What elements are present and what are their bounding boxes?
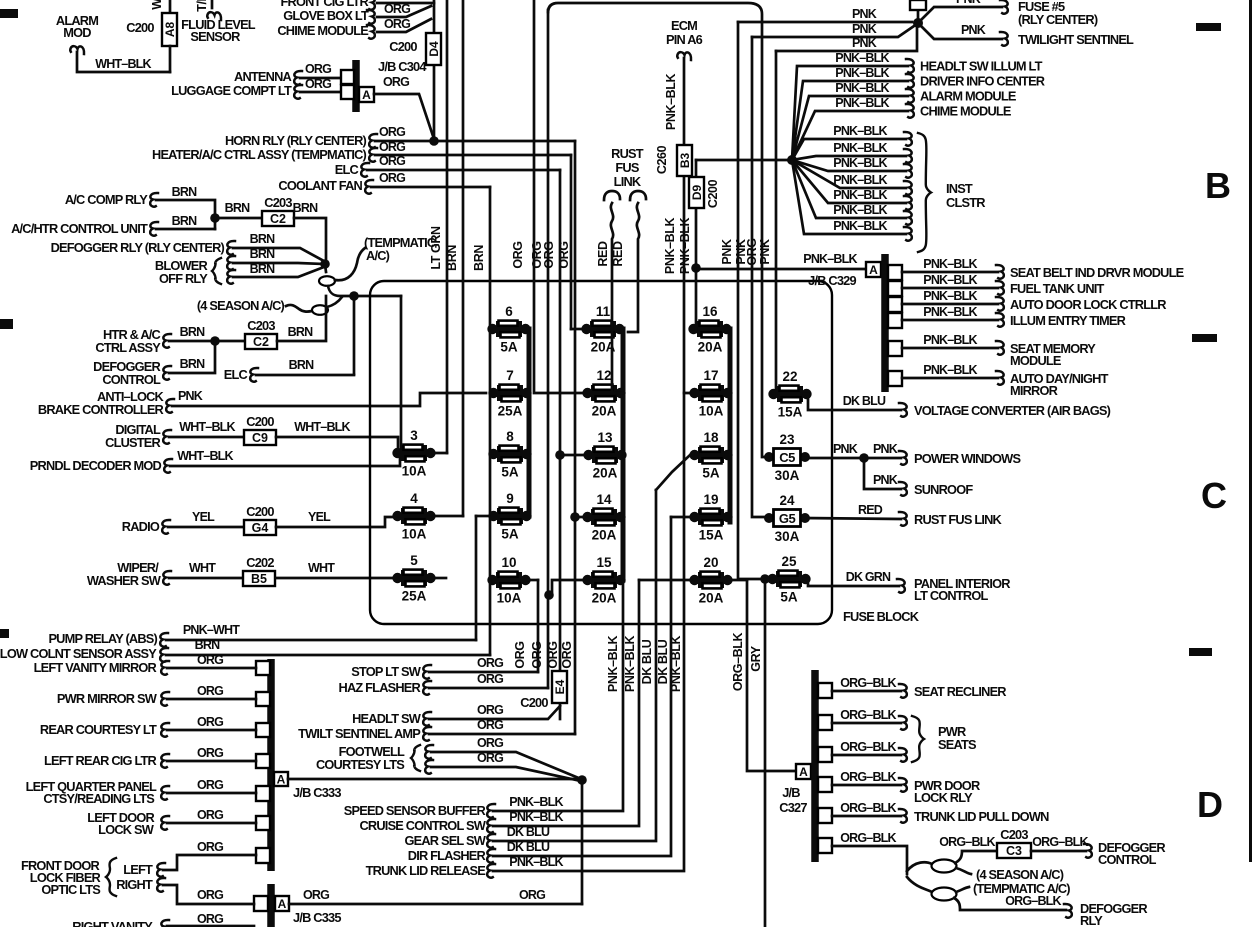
svg-text:16: 16 bbox=[702, 304, 718, 319]
junction gry-jct bbox=[760, 574, 770, 584]
svg-text:ORG: ORG bbox=[197, 888, 223, 902]
svg-text:5A: 5A bbox=[500, 340, 518, 355]
terminal hook fuse5-rly bbox=[1000, 0, 1008, 14]
wire bus-col3-right bbox=[621, 329, 626, 580]
terminal hook elc2 bbox=[250, 368, 258, 382]
wire v-org-twilt bbox=[574, 141, 577, 734]
terminal hook c333-2 bbox=[161, 692, 169, 706]
wire panel-int bbox=[804, 579, 899, 586]
svg-text:7: 7 bbox=[506, 368, 514, 383]
svg-text:D4: D4 bbox=[427, 41, 441, 57]
connector pin c329-2 bbox=[888, 281, 902, 296]
wire v-brn-a bbox=[462, 0, 465, 516]
svg-text:TRUNK LID RELEASE: TRUNK LID RELEASE bbox=[366, 863, 487, 878]
svg-text:PNK–BLK: PNK–BLK bbox=[509, 795, 563, 809]
connector pin c327-5 bbox=[818, 808, 832, 823]
wire jbc329-feed bbox=[696, 268, 866, 271]
wire c329-3 bbox=[902, 303, 998, 306]
svg-text:PNK–BLK: PNK–BLK bbox=[833, 156, 887, 170]
wire defog-ctl-wire bbox=[1031, 850, 1086, 853]
svg-text:14: 14 bbox=[596, 492, 612, 507]
svg-text:C5: C5 bbox=[779, 450, 795, 465]
registration mark right-c bbox=[1189, 648, 1212, 656]
svg-text:C: C bbox=[1201, 475, 1227, 516]
wire radio-yel-r bbox=[276, 517, 394, 527]
junction d9-jct bbox=[691, 263, 701, 273]
terminal hook c333-3 bbox=[161, 723, 169, 737]
svg-text:20A: 20A bbox=[593, 466, 618, 481]
terminal hook alarm-module bbox=[906, 89, 914, 103]
wire bubble-drop bbox=[400, 296, 403, 449]
wire c329-2 bbox=[902, 287, 998, 290]
svg-text:HAZ FLASHER: HAZ FLASHER bbox=[339, 680, 421, 695]
svg-text:HEADLT SW: HEADLT SW bbox=[352, 711, 422, 726]
svg-text:C200: C200 bbox=[389, 39, 417, 54]
svg-text:A: A bbox=[869, 263, 878, 277]
wire inst-clstr-6 bbox=[792, 160, 906, 218]
svg-text:PNK–BLK: PNK–BLK bbox=[835, 51, 889, 65]
svg-text:C200: C200 bbox=[246, 414, 274, 429]
svg-text:PNK–BLK: PNK–BLK bbox=[833, 188, 887, 202]
connector pin c327-4 bbox=[818, 777, 832, 792]
svg-text:BRN: BRN bbox=[250, 262, 275, 276]
svg-text:ORG: ORG bbox=[519, 888, 545, 902]
terminal hook panel-int bbox=[897, 579, 905, 593]
svg-text:SEAT RECLINER: SEAT RECLINER bbox=[914, 684, 1006, 699]
wire c333-2 bbox=[167, 698, 256, 701]
connector pin c333-6 bbox=[256, 816, 270, 830]
wire c327-3 bbox=[832, 754, 901, 757]
svg-text:A: A bbox=[277, 773, 286, 787]
brace inst-clstr bbox=[918, 133, 931, 252]
svg-text:PNK–BLK: PNK–BLK bbox=[923, 257, 977, 271]
svg-text:ORG: ORG bbox=[197, 912, 223, 926]
wire htrac-brn bbox=[169, 340, 245, 343]
wire f17-feed bbox=[684, 176, 690, 393]
terminal hook radio bbox=[162, 520, 170, 534]
connector c335-A bbox=[275, 896, 289, 911]
terminal hook wiper bbox=[163, 571, 171, 585]
svg-text:BRN: BRN bbox=[250, 247, 275, 261]
terminal hook low-colnt bbox=[160, 648, 168, 662]
wire v-pnk-top-c bbox=[776, 25, 917, 51]
svg-text:CTRL ASSY: CTRL ASSY bbox=[95, 340, 161, 355]
svg-text:YEL: YEL bbox=[308, 510, 331, 524]
connector pin c329-6 bbox=[888, 371, 902, 386]
svg-text:C2: C2 bbox=[270, 212, 286, 226]
svg-text:C200: C200 bbox=[246, 504, 274, 519]
svg-text:5A: 5A bbox=[501, 465, 519, 480]
wire sunroof bbox=[864, 458, 901, 489]
svg-text:5A: 5A bbox=[501, 527, 519, 542]
fuse F16 20A bbox=[688, 304, 731, 355]
wire elc2-riser bbox=[353, 296, 356, 374]
svg-text:RUST FUS LINK: RUST FUS LINK bbox=[914, 512, 1003, 527]
svg-text:COURTESY LTS: COURTESY LTS bbox=[316, 757, 405, 772]
svg-text:POWER WINDOWS: POWER WINDOWS bbox=[914, 451, 1021, 466]
svg-text:A/C/HTR CONTROL UNIT: A/C/HTR CONTROL UNIT bbox=[11, 221, 148, 236]
wire c329-1 bbox=[902, 271, 998, 274]
connector pin c304-1 bbox=[341, 70, 354, 84]
wire pnk-node-stub bbox=[917, 0, 920, 23]
terminal hook c333-4 bbox=[161, 754, 169, 768]
svg-text:PNK–BLK: PNK–BLK bbox=[663, 218, 677, 275]
svg-text:5A: 5A bbox=[780, 590, 798, 605]
svg-text:PNK–BLK: PNK–BLK bbox=[923, 363, 977, 377]
wire footwell-org1 bbox=[431, 752, 581, 779]
terminal hook cruise bbox=[487, 819, 495, 833]
svg-text:PNK–BLK: PNK–BLK bbox=[669, 636, 683, 693]
terminal hook fdl-left bbox=[157, 863, 165, 877]
connector C2 C203 a bbox=[262, 211, 294, 226]
wire defog-c3-riser bbox=[955, 851, 996, 863]
svg-text:WHT: WHT bbox=[189, 561, 216, 575]
svg-text:C200: C200 bbox=[520, 695, 548, 710]
svg-text:ORG–BLK: ORG–BLK bbox=[840, 676, 896, 690]
svg-text:BRAKE CONTROLLER: BRAKE CONTROLLER bbox=[38, 402, 164, 417]
fuse F23 C5 30A bbox=[764, 432, 810, 483]
terminal hook c329-6 bbox=[996, 371, 1004, 385]
wire v-orgblk-c327 bbox=[747, 580, 796, 771]
svg-text:(RLY CENTER): (RLY CENTER) bbox=[1018, 12, 1098, 27]
terminal hook c329-4 bbox=[996, 313, 1004, 327]
inline connector oval tempmatic-b bbox=[932, 888, 957, 901]
terminal hook c333-1 bbox=[161, 661, 169, 675]
svg-text:E4: E4 bbox=[553, 679, 567, 694]
wire f11-left bbox=[571, 328, 583, 331]
wire f10-drop bbox=[489, 580, 492, 655]
wire rust-brace-l bbox=[604, 191, 620, 200]
svg-text:BRN: BRN bbox=[180, 357, 205, 371]
wire haz-org bbox=[429, 687, 548, 690]
terminal hook twilt bbox=[423, 727, 431, 741]
connector B3 C260 bbox=[677, 145, 692, 176]
fuse F18 5A bbox=[689, 430, 732, 481]
wire fdl-right-org bbox=[163, 885, 254, 904]
terminal hook inst-clstr-6 bbox=[904, 211, 912, 225]
junction-block bar J/B C304 bbox=[352, 60, 360, 112]
svg-text:10A: 10A bbox=[497, 591, 522, 606]
wire antilock-pnk bbox=[172, 393, 486, 406]
wire v-footwell bbox=[581, 780, 584, 904]
svg-text:PNK: PNK bbox=[178, 389, 203, 403]
wire v-org-e4-bot bbox=[559, 703, 562, 719]
wire ldl-org bbox=[167, 822, 256, 825]
terminal hook luggage bbox=[294, 85, 302, 99]
terminal hook footwell-b bbox=[425, 760, 433, 774]
svg-text:ANTENNA: ANTENNA bbox=[234, 69, 292, 84]
inline connector oval 4season-b bbox=[932, 860, 957, 873]
wire c329-5 bbox=[902, 347, 998, 350]
terminal hook antenna bbox=[294, 71, 302, 85]
junction footwell-node bbox=[577, 775, 587, 785]
terminal hook power-windows bbox=[899, 451, 907, 465]
brace blower bbox=[212, 258, 221, 284]
terminal hook dir-flasher bbox=[487, 849, 495, 863]
svg-text:ORG: ORG bbox=[303, 888, 329, 902]
svg-text:C200: C200 bbox=[706, 179, 720, 208]
svg-text:18: 18 bbox=[703, 430, 719, 445]
wire headlt-illum bbox=[792, 66, 908, 160]
svg-text:5: 5 bbox=[410, 553, 418, 568]
connector pin c327-6 bbox=[818, 838, 832, 853]
wire d4-line bbox=[433, 0, 436, 141]
svg-text:CRUISE CONTROL SW: CRUISE CONTROL SW bbox=[359, 818, 486, 833]
connector pin c333-5 bbox=[256, 786, 270, 801]
terminal hook taillt bbox=[207, 12, 221, 20]
svg-text:ORG–BLK: ORG–BLK bbox=[840, 708, 896, 722]
svg-text:LOCK SW: LOCK SW bbox=[98, 822, 155, 837]
registration mark left-b bbox=[0, 319, 13, 329]
wire inst-clstr-2 bbox=[792, 156, 906, 160]
wire v-pnk-top-a bbox=[738, 21, 912, 24]
wire c335a-org bbox=[289, 903, 582, 906]
svg-text:PNK: PNK bbox=[873, 442, 898, 456]
svg-text:YEL: YEL bbox=[192, 510, 215, 524]
terminal hook prndl bbox=[164, 459, 172, 473]
svg-text:PNK–BLK: PNK–BLK bbox=[833, 173, 887, 187]
svg-text:ORG: ORG bbox=[383, 75, 409, 89]
svg-text:ORG: ORG bbox=[530, 641, 544, 668]
connector pin c304-2 bbox=[341, 85, 354, 99]
wire blower-brn2 bbox=[233, 267, 324, 277]
connector C9 C200 bbox=[244, 430, 276, 445]
svg-text:19: 19 bbox=[703, 492, 718, 507]
svg-text:PNK–BLK: PNK–BLK bbox=[923, 289, 977, 303]
svg-text:(4 SEASON A/C): (4 SEASON A/C) bbox=[976, 867, 1064, 882]
svg-text:BRN: BRN bbox=[288, 325, 313, 339]
junction bubble-node1 bbox=[320, 259, 330, 269]
svg-text:WHT–BLK: WHT–BLK bbox=[294, 420, 350, 434]
wire rust-link-r bbox=[803, 518, 901, 519]
wire horn-org bbox=[375, 140, 575, 143]
wire v-pnkwht-pump bbox=[475, 516, 478, 640]
connector c333-A bbox=[274, 772, 288, 787]
terminal hook right-vanity bbox=[161, 920, 169, 927]
svg-text:ORG: ORG bbox=[546, 641, 560, 668]
wire rust-brace-r bbox=[630, 191, 646, 200]
svg-text:30A: 30A bbox=[775, 468, 800, 483]
svg-text:25A: 25A bbox=[498, 404, 523, 419]
svg-text:22: 22 bbox=[782, 369, 797, 384]
terminal hook c327-4 bbox=[899, 778, 907, 792]
svg-text:4: 4 bbox=[410, 491, 418, 506]
svg-text:WHT: WHT bbox=[308, 561, 335, 575]
junction-block bar J/B C335 bbox=[267, 884, 275, 927]
svg-text:ELC: ELC bbox=[224, 367, 248, 382]
svg-text:PIN A6: PIN A6 bbox=[666, 32, 703, 47]
registration mark right-b bbox=[1192, 334, 1217, 342]
wire f10-right bbox=[528, 579, 538, 582]
connector pin c329-3 bbox=[888, 297, 902, 312]
fuse F17 10A bbox=[689, 368, 732, 419]
svg-text:ORG: ORG bbox=[197, 808, 223, 822]
svg-text:PNK: PNK bbox=[873, 473, 898, 487]
wire f19-left bbox=[671, 516, 691, 519]
junction pw-node bbox=[859, 453, 869, 463]
svg-text:PNK–BLK: PNK–BLK bbox=[606, 636, 620, 693]
terminal hook blower-b bbox=[227, 270, 235, 284]
svg-text:PNK–BLK: PNK–BLK bbox=[923, 333, 977, 347]
svg-text:ORG: ORG bbox=[305, 62, 331, 76]
brace pwr-seats bbox=[912, 716, 924, 762]
terminal hook rust-link-r bbox=[899, 512, 907, 526]
svg-text:ORG: ORG bbox=[513, 641, 527, 668]
fuse F12 20A bbox=[582, 368, 625, 419]
svg-text:DRIVER INFO CENTER: DRIVER INFO CENTER bbox=[920, 74, 1045, 89]
svg-text:SEATS: SEATS bbox=[938, 737, 977, 752]
svg-text:15A: 15A bbox=[778, 405, 803, 420]
svg-text:30A: 30A bbox=[775, 529, 800, 544]
svg-text:PNK–BLK: PNK–BLK bbox=[833, 124, 887, 138]
svg-text:BRN: BRN bbox=[289, 358, 314, 372]
wire defog-rly-brn bbox=[233, 248, 324, 261]
svg-text:PNK: PNK bbox=[852, 7, 877, 21]
wire 4season-squiggle bbox=[286, 305, 312, 312]
svg-text:BRN: BRN bbox=[172, 185, 197, 199]
svg-text:SPEED SENSOR BUFFER: SPEED SENSOR BUFFER bbox=[344, 803, 486, 818]
svg-text:C327: C327 bbox=[779, 800, 807, 815]
wire c333-4 bbox=[167, 760, 256, 763]
junction fan-node bbox=[787, 155, 797, 165]
svg-text:A: A bbox=[278, 897, 287, 911]
fuse F9 5A bbox=[488, 491, 531, 542]
svg-text:ORG: ORG bbox=[477, 751, 503, 765]
svg-text:20A: 20A bbox=[592, 528, 617, 543]
wire elc1-org bbox=[367, 169, 560, 172]
svg-text:B3: B3 bbox=[678, 153, 692, 169]
wire luggage-org bbox=[300, 91, 341, 94]
svg-text:BRN: BRN bbox=[472, 245, 486, 271]
wire bubble-main-2 bbox=[328, 286, 401, 296]
terminal hook lqp bbox=[161, 786, 169, 800]
svg-text:25: 25 bbox=[781, 554, 797, 569]
registration mark left-c bbox=[0, 629, 9, 638]
connector c329-A bbox=[866, 262, 881, 277]
svg-text:WHT–BLK: WHT–BLK bbox=[177, 449, 233, 463]
terminal hook ecm bbox=[677, 52, 691, 60]
connector pin c327-3 bbox=[818, 747, 832, 762]
wire heater-org bbox=[375, 154, 571, 157]
svg-text:LINK: LINK bbox=[614, 174, 642, 189]
connector C3 C203 bbox=[997, 843, 1031, 858]
svg-text:ORG–BLK: ORG–BLK bbox=[840, 831, 896, 845]
connector pin c329-4 bbox=[888, 313, 902, 328]
svg-text:C2: C2 bbox=[253, 335, 269, 349]
svg-text:WHT–BLK: WHT–BLK bbox=[95, 57, 151, 71]
registration mark top-left bbox=[0, 9, 18, 18]
svg-text:RIGHT: RIGHT bbox=[116, 877, 153, 892]
svg-text:ORG: ORG bbox=[197, 653, 223, 667]
svg-text:RUST: RUST bbox=[611, 146, 644, 161]
wire v-ltgrn bbox=[446, 0, 449, 453]
svg-text:PWR MIRROR SW: PWR MIRROR SW bbox=[57, 691, 158, 706]
svg-text:STOP LT SW: STOP LT SW bbox=[351, 664, 422, 679]
connector C2 C203 b bbox=[245, 334, 277, 349]
wire inst-clstr-5 bbox=[792, 160, 906, 203]
wire v-org-e4-top bbox=[559, 170, 562, 671]
wire lqp-org bbox=[167, 792, 256, 795]
svg-text:CLUSTER: CLUSTER bbox=[105, 435, 160, 450]
svg-text:DK BLU: DK BLU bbox=[656, 639, 670, 684]
wire glove-org bbox=[377, 6, 431, 17]
inline connector oval 4season bbox=[312, 305, 328, 315]
svg-text:LEFT VANITY MIRROR: LEFT VANITY MIRROR bbox=[34, 660, 157, 675]
svg-text:RADIO: RADIO bbox=[122, 519, 160, 534]
svg-text:PNK–BLK: PNK–BLK bbox=[833, 141, 887, 155]
svg-text:G5: G5 bbox=[779, 511, 796, 526]
terminal hook glove-box bbox=[367, 10, 375, 24]
connector G4 C200 bbox=[244, 520, 276, 535]
fuse F7 25A bbox=[488, 368, 531, 419]
wire v-heater-f11 bbox=[570, 155, 573, 329]
wire chime-module bbox=[792, 111, 908, 160]
fuse F24 G5 30A bbox=[764, 493, 810, 544]
fuse F22 15A bbox=[768, 369, 811, 420]
svg-text:LEFT REAR CIG LTR: LEFT REAR CIG LTR bbox=[44, 753, 157, 768]
terminal hook elc1 bbox=[361, 163, 369, 177]
svg-text:RED: RED bbox=[858, 503, 883, 517]
wire stop-org bbox=[429, 671, 538, 674]
svg-text:5A: 5A bbox=[702, 466, 720, 481]
fuse F3 10A bbox=[392, 428, 435, 479]
svg-text:24: 24 bbox=[779, 493, 795, 508]
wire c327-4 bbox=[832, 784, 901, 787]
svg-text:J/B C335: J/B C335 bbox=[293, 910, 341, 925]
svg-text:PNK–BLK: PNK–BLK bbox=[509, 810, 563, 824]
svg-text:J/B C329: J/B C329 bbox=[808, 273, 856, 288]
wire v-org-stop bbox=[534, 0, 584, 393]
terminal hook trunk-rel bbox=[487, 864, 495, 878]
svg-text:LEFT: LEFT bbox=[123, 862, 153, 877]
svg-text:B5: B5 bbox=[251, 572, 267, 586]
wire v-gry bbox=[764, 579, 767, 927]
svg-text:PNK–BLK: PNK–BLK bbox=[664, 74, 678, 131]
wire f16-feed bbox=[692, 208, 696, 332]
svg-text:SUNROOF: SUNROOF bbox=[914, 482, 973, 497]
svg-text:PNK: PNK bbox=[961, 23, 986, 37]
svg-text:ORG: ORG bbox=[384, 2, 410, 16]
svg-text:W: W bbox=[150, 0, 164, 10]
svg-text:G4: G4 bbox=[252, 521, 269, 535]
wire footwell-org2 bbox=[431, 767, 581, 781]
brace footwell bbox=[411, 745, 420, 771]
svg-text:TWILT SENTINEL AMP: TWILT SENTINEL AMP bbox=[298, 726, 421, 741]
wire c304a-org bbox=[374, 94, 434, 139]
wire inst-clstr-7 bbox=[792, 160, 906, 234]
wire twilight-wire bbox=[918, 23, 1002, 39]
wire bus-col4-right bbox=[728, 329, 733, 522]
svg-text:C202: C202 bbox=[246, 555, 274, 570]
fuse F11 20A bbox=[581, 304, 624, 355]
svg-text:PRNDL DECODER MOD: PRNDL DECODER MOD bbox=[30, 458, 162, 473]
svg-text:SEAT BELT IND DRVR MODULE: SEAT BELT IND DRVR MODULE bbox=[1010, 265, 1185, 280]
wire voltage-conv bbox=[804, 394, 901, 410]
terminal hook stop-lt bbox=[423, 665, 431, 679]
svg-text:PNK–BLK: PNK–BLK bbox=[623, 636, 637, 693]
junction-block bar J/B C329 bbox=[881, 254, 889, 392]
svg-text:T/L: T/L bbox=[195, 0, 209, 12]
junction-block bar J/B C333 bbox=[267, 659, 275, 871]
connector c327-A bbox=[796, 764, 811, 779]
svg-text:C3: C3 bbox=[1006, 844, 1022, 858]
terminal hook headlt bbox=[423, 712, 431, 726]
svg-text:ORG–BLK: ORG–BLK bbox=[1032, 835, 1088, 849]
svg-text:ORG: ORG bbox=[379, 154, 405, 168]
wire defog-rly-wire bbox=[954, 898, 1066, 910]
svg-text:ALARM MODULE: ALARM MODULE bbox=[920, 89, 1017, 104]
fuse F19 15A bbox=[689, 492, 732, 543]
